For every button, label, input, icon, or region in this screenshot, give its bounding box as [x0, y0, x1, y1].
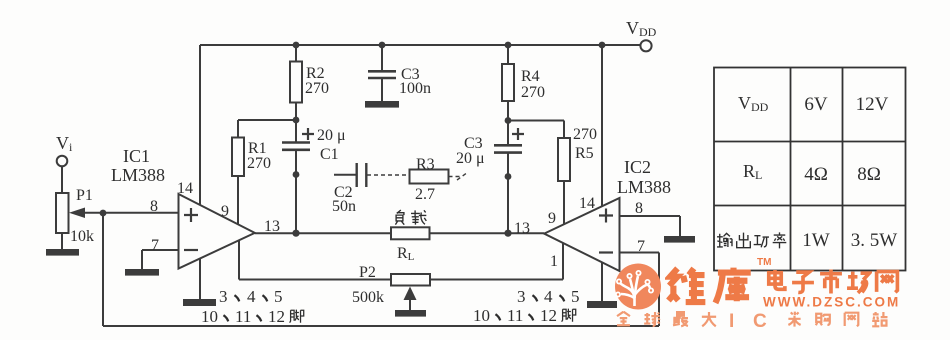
table power output: [714, 68, 906, 271]
plus sign C1 polarity: [302, 128, 314, 140]
svg-text:11: 11: [507, 306, 523, 325]
node top rail at R4: [505, 42, 512, 49]
svg-text:14: 14: [177, 180, 193, 197]
svg-text:R3: R3: [416, 156, 435, 173]
capacitor C1: [282, 143, 310, 150]
wiper arrow of P2: [404, 287, 417, 301]
svg-text:IC1: IC1: [123, 146, 150, 166]
svg-text:Vi: Vi: [56, 133, 73, 154]
wire IC1 pins 3,4,5 ground stem: [199, 259, 201, 300]
svg-text:WWW.DZSC.COM: WWW.DZSC.COM: [763, 295, 900, 310]
svg-text:12V: 12V: [856, 94, 889, 115]
svg-text:20 μ: 20 μ: [317, 127, 346, 144]
svg-text:10k: 10k: [70, 228, 94, 245]
svg-text:C: C: [753, 311, 767, 332]
svg-text:12: 12: [268, 307, 285, 326]
plus sign C3 20u polarity: [512, 128, 524, 140]
plus sign IC1: [184, 208, 198, 222]
ground under IC2: [588, 302, 616, 307]
node top rail at R2: [293, 42, 300, 49]
svg-text:270: 270: [573, 126, 597, 143]
svg-text:RL: RL: [743, 161, 762, 182]
svg-text:13: 13: [264, 218, 280, 235]
ground under P1: [47, 250, 78, 255]
svg-text:P2: P2: [359, 264, 376, 281]
resistor R3: [410, 170, 449, 184]
wire R2 bottom to C1 to output node: [295, 150, 297, 233]
node top rail at VDD: [599, 42, 606, 49]
P2 wiper arrow stem: [409, 298, 411, 311]
ground under IC2 pin 8: [665, 237, 694, 242]
svg-text:20 μ: 20 μ: [456, 150, 485, 167]
wire left vertical to IC1 pin 14: [199, 45, 201, 206]
svg-text:C1: C1: [320, 146, 339, 163]
watermark weiku big chinese: [668, 268, 705, 302]
resistor R5: [558, 138, 570, 181]
svg-text:7: 7: [637, 238, 645, 255]
svg-text:270: 270: [305, 80, 329, 97]
minus sign IC1: [184, 249, 198, 251]
ground under P2: [396, 311, 425, 316]
svg-text:I: I: [729, 311, 734, 332]
op-amp IC1 LM388: [179, 194, 255, 269]
wire bottom rail: [103, 325, 659, 327]
wire IC2 pin 8: [620, 216, 681, 237]
comma marks right 3,4,5: [532, 295, 537, 301]
wire R1 horizontal from R2 node: [238, 119, 296, 121]
wire R1 vertical: [237, 120, 239, 224]
svg-text:270: 270: [521, 84, 545, 101]
potentiometer P1: [56, 193, 69, 233]
wire P2 to IC2 pin 1: [430, 243, 563, 279]
svg-text:RL: RL: [397, 245, 415, 263]
wire P1 wiper to IC1 pin 8: [84, 212, 179, 214]
label jiao left: [290, 310, 304, 323]
label jiao right: [562, 309, 576, 322]
resistor R1: [232, 138, 244, 177]
resistor R4: [502, 64, 514, 101]
wire P1 to ground: [61, 233, 63, 250]
svg-text:TM: TM: [757, 257, 771, 268]
svg-text:4: 4: [247, 287, 256, 306]
wire Vi to P1: [61, 167, 63, 194]
wiper arrow of P1: [69, 208, 85, 219]
terminal Vi: [57, 156, 68, 167]
wire IC1 pin 1 to P2 line: [239, 240, 391, 279]
svg-text:IC2: IC2: [624, 157, 651, 177]
comma marks left 3,4,5: [234, 295, 239, 301]
svg-text:2.7: 2.7: [415, 186, 435, 203]
watermark logo circle: [615, 264, 661, 310]
node C1/zobel junction: [293, 171, 300, 178]
comma marks left 10,11,12: [223, 315, 228, 321]
wire IC2 pin 14 vertical: [601, 45, 603, 207]
ground under C3: [366, 102, 398, 107]
svg-text:13: 13: [514, 220, 530, 237]
svg-text:LM388: LM388: [617, 177, 671, 197]
wire IC2 pins 3,4,5 ground stem: [601, 262, 603, 302]
resistor R2: [290, 62, 302, 103]
resistor RL load: [391, 227, 430, 239]
ground under IC1 pin 7: [126, 270, 158, 275]
wire zobel lead left: [334, 174, 356, 176]
svg-text:3: 3: [219, 287, 228, 306]
node C3/zobel junction: [505, 173, 512, 180]
svg-text:1: 1: [550, 253, 558, 270]
plus sign IC2: [599, 209, 613, 223]
potentiometer P2: [391, 274, 430, 286]
wire feedback left vertical: [102, 213, 104, 326]
svg-text:14: 14: [579, 195, 595, 212]
node R2/R1 junction: [293, 117, 300, 124]
capacitor C3 20u: [494, 145, 522, 152]
svg-text:6V: 6V: [804, 94, 828, 115]
svg-text:5: 5: [571, 287, 580, 306]
svg-text:12: 12: [540, 306, 557, 325]
capacitor C3 100n: [368, 71, 396, 78]
svg-text:100n: 100n: [399, 80, 431, 97]
ground under IC1: [184, 300, 215, 305]
svg-text:LM388: LM388: [111, 165, 165, 185]
node P1 wiper junction: [100, 210, 107, 217]
svg-text:8: 8: [150, 198, 158, 215]
wire R2 branch vertical: [295, 45, 297, 142]
label fuzai load chinese: [395, 210, 404, 225]
capacitor C2: [357, 163, 367, 187]
svg-text:8Ω: 8Ω: [857, 164, 881, 185]
node output IC2 pin13: [504, 230, 511, 237]
wire top rail: [200, 44, 640, 46]
svg-text:3: 3: [517, 287, 526, 306]
watermark bottom line quanqiuzuida chinese: [617, 312, 630, 326]
comma marks right 10,11,12: [495, 314, 500, 320]
wire C3 100n branch: [381, 45, 383, 102]
svg-text:3. 5W: 3. 5W: [851, 230, 898, 251]
node top rail at C3: [379, 42, 386, 49]
svg-text:5: 5: [274, 287, 283, 306]
minus sign IC2: [599, 251, 613, 253]
wire zobel dashed C2 to R3: [367, 174, 409, 176]
svg-text:50n: 50n: [332, 198, 356, 215]
watermark bottom line caigouwangzhan chinese: [788, 312, 800, 327]
wire right vertical to IC2 pin 7: [620, 253, 660, 327]
svg-text:8: 8: [635, 200, 643, 217]
svg-text:9: 9: [548, 210, 556, 227]
svg-text:4: 4: [544, 287, 553, 306]
terminal VDD: [640, 40, 651, 51]
wire output node line pin13 to pin13: [255, 232, 544, 234]
wire C3 20u bottom to output node: [507, 153, 509, 233]
svg-text:11: 11: [235, 307, 251, 326]
svg-text:10: 10: [201, 307, 218, 326]
op-amp IC2 LM388: [544, 198, 619, 271]
wire IC1 pin 7: [142, 250, 179, 270]
wire zobel dashed tail: [449, 172, 469, 180]
svg-text:1W: 1W: [802, 230, 830, 251]
node R4/R5 junction: [505, 117, 512, 124]
svg-text:9: 9: [221, 203, 229, 220]
table label shuchugonglv output power: [717, 233, 732, 247]
svg-text:R4: R4: [521, 68, 540, 85]
svg-text:500k: 500k: [352, 289, 384, 306]
svg-text:VDD: VDD: [738, 93, 769, 114]
svg-text:VDD: VDD: [626, 18, 657, 39]
watermark dianzishichangwang chinese: [769, 270, 785, 289]
svg-text:270: 270: [247, 155, 271, 172]
svg-text:P1: P1: [76, 187, 93, 204]
node output IC1 pin13: [292, 230, 299, 237]
svg-text:10: 10: [473, 306, 490, 325]
wire R4 branch vertical: [507, 45, 509, 145]
wire R5 branch: [508, 121, 564, 225]
svg-text:7: 7: [151, 237, 159, 254]
svg-text:4Ω: 4Ω: [804, 164, 828, 185]
svg-text:R5: R5: [575, 145, 594, 162]
